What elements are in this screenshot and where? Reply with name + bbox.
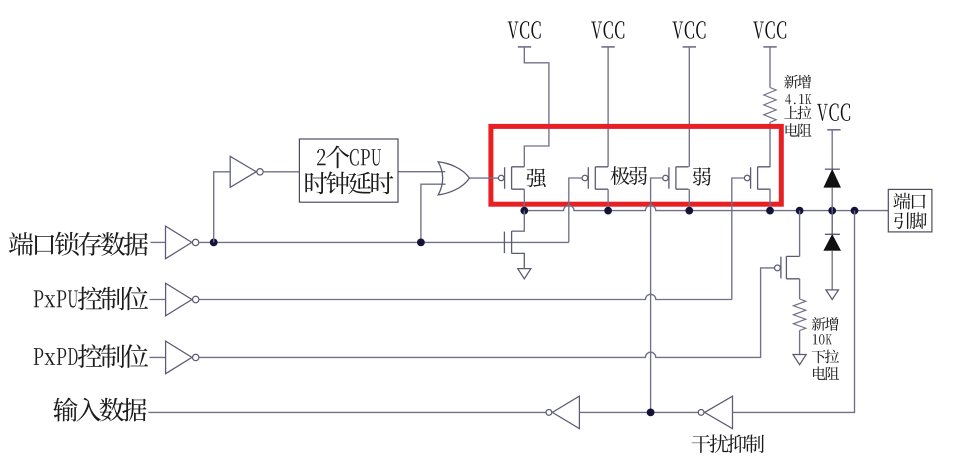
label R2 value line1 xyxy=(812,317,839,331)
wire D1 to bus xyxy=(831,187,833,210)
node Q1 drain junction xyxy=(520,207,528,215)
bubble M2 gate xyxy=(775,265,781,271)
label R2 value line2 xyxy=(813,334,832,344)
wire Q2 drain xyxy=(607,189,609,210)
wire bus to M1 drain xyxy=(512,211,525,232)
power VCC3 label xyxy=(672,21,705,39)
label PxPD control bit xyxy=(34,344,148,368)
wire pin feedback xyxy=(733,211,855,413)
transistor Q1 strong pull-up xyxy=(505,167,525,190)
label delay box line2 xyxy=(305,172,393,195)
wire VCC2 stem xyxy=(607,47,609,167)
label Q2 very weak xyxy=(610,166,647,185)
transistor Q3 weak pull-up xyxy=(669,167,689,190)
wire latch to delay inverter xyxy=(214,172,231,243)
diode D2 lower clamp xyxy=(824,211,841,251)
label noise suppression xyxy=(692,434,764,453)
node latch line branch B xyxy=(417,239,425,247)
node Q3 drain junction xyxy=(685,207,693,215)
inverter U5 PxPU xyxy=(166,283,192,316)
wire VCC1 stem jog xyxy=(524,47,549,167)
power VCC5 rail bar xyxy=(827,129,840,131)
down arrow under D2 xyxy=(826,290,839,300)
wire R2 to ground arrow xyxy=(799,331,801,355)
label input data xyxy=(53,398,146,422)
transistor Q2 very-weak pull-up xyxy=(588,167,608,190)
wire PxPU label to inverter xyxy=(150,299,166,301)
power VCC1 rail bar xyxy=(518,46,531,48)
power VCC1 label xyxy=(508,21,541,39)
wire R1 to T4 source xyxy=(769,122,771,167)
node pulldown branch junction xyxy=(796,207,804,215)
wire CPU-delay to OR input A xyxy=(398,171,445,173)
inverter U3 latch buffer xyxy=(166,226,192,259)
wire between input inverters xyxy=(579,411,699,413)
node feedback junction xyxy=(851,207,859,215)
wire VCC3 stem xyxy=(688,47,690,167)
wire VCC4 stem to R1 xyxy=(769,47,771,88)
label Q3 weak xyxy=(693,167,711,185)
wire PxPD line xyxy=(200,268,775,358)
wire PxPD label to inverter xyxy=(150,356,166,358)
wire Q4 drain xyxy=(769,189,771,210)
resistor R2 10K pull-down xyxy=(793,299,805,331)
wire Q2 gate from latch line xyxy=(569,178,583,242)
wire Q3 gate from input feedback xyxy=(651,178,664,412)
power VCC2 label xyxy=(591,21,624,39)
wire OR output to Q1 gate xyxy=(470,177,499,179)
label R1 value line1 xyxy=(784,75,811,89)
node feedback to input junction xyxy=(647,409,655,417)
wire Q1 drain xyxy=(523,189,525,210)
wire M2 drain to bus xyxy=(799,211,801,257)
resistor R1 4.1K pull-up xyxy=(764,88,776,123)
node clamp diode junction xyxy=(828,207,836,215)
label R1 value line2 xyxy=(785,94,811,104)
wire VCC5 stem xyxy=(831,130,833,169)
label port latch data xyxy=(9,232,148,256)
block port pin box xyxy=(888,189,932,232)
ground under M1 xyxy=(518,269,531,279)
node latch line branch A xyxy=(210,239,218,247)
label delay box line1 xyxy=(317,146,381,169)
label port pin line2 xyxy=(894,212,927,229)
highlight box around pull-up transistors xyxy=(491,126,781,204)
wire D2 to down arrow xyxy=(831,250,833,290)
label R2 value line3 xyxy=(812,350,839,364)
block 2-CPU-clock-delay box xyxy=(299,139,398,202)
transistor M2 new pull-down switch xyxy=(781,256,800,279)
label R1 value line3 xyxy=(784,106,811,120)
wire PxPU line xyxy=(200,294,732,299)
diode D1 clamp to VCC xyxy=(824,169,841,187)
wire input data line xyxy=(148,411,546,413)
transistor Q4 new pull-up switch xyxy=(751,167,771,190)
or-gate U1 xyxy=(438,162,469,195)
power VCC4 rail bar xyxy=(763,46,776,48)
label R2 value line4 xyxy=(813,367,839,381)
wire Q3 drain xyxy=(688,189,690,210)
power VCC4 label xyxy=(753,21,786,39)
inverter U7 input buffer xyxy=(552,396,579,429)
label R1 value line4 xyxy=(786,123,812,137)
power VCC2 rail bar xyxy=(601,46,614,48)
label Q1 strong xyxy=(526,168,545,187)
transistor M1 output pull-down driver xyxy=(504,231,524,269)
wire latch to OR input B xyxy=(421,184,446,242)
label PxPU control bit xyxy=(34,287,148,311)
inverter U4 pre-delay xyxy=(230,156,256,187)
node Q4 drain junction xyxy=(766,207,774,215)
wire M2 source to R2 xyxy=(799,279,801,299)
inverter U6 PxPD xyxy=(166,341,192,374)
label port pin line1 xyxy=(893,193,925,210)
wire latch label to inverter xyxy=(151,241,166,243)
power VCC5 label xyxy=(817,103,850,121)
wire U4 to CPU delay box xyxy=(264,171,300,173)
ground arrow under R2 xyxy=(793,355,806,365)
node Q2 drain junction xyxy=(604,207,612,215)
wire pin bus xyxy=(524,205,888,210)
wire latch line xyxy=(199,241,568,243)
power VCC3 rail bar xyxy=(683,46,696,48)
inverter U8 noise suppression xyxy=(705,396,733,429)
wire Q4 gate from PxPU line xyxy=(732,178,744,300)
